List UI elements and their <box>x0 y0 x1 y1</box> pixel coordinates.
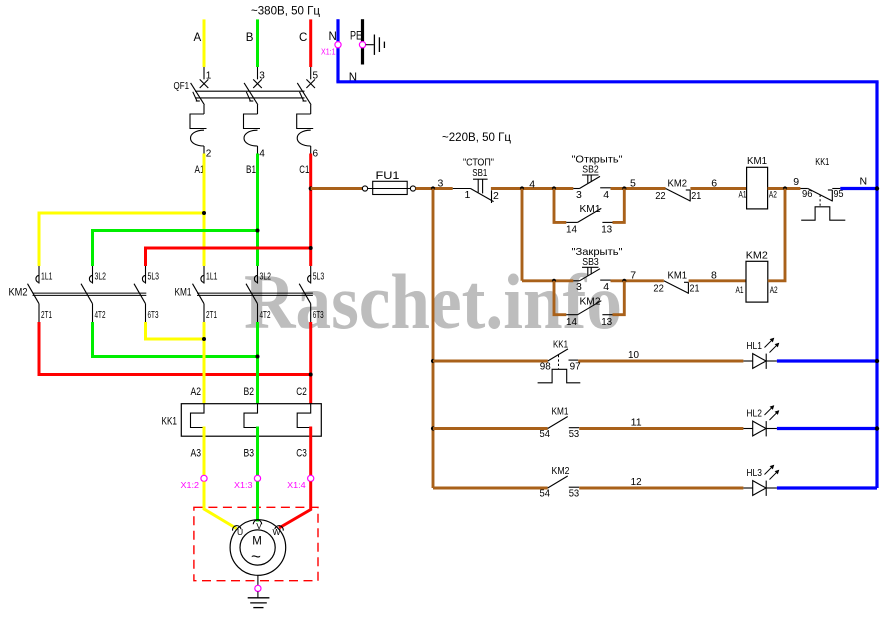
node junction N bus lamp2 <box>875 426 879 430</box>
wire brown SB1 to SB2 <box>491 187 573 190</box>
node junction A-branch <box>202 211 206 215</box>
svg-text:4: 4 <box>529 179 535 191</box>
wire brown KM2 coil A2 up to node 9 <box>768 189 785 281</box>
wire blue to N <box>840 187 877 190</box>
thermal relay KK1 heater element <box>244 404 258 428</box>
svg-text:10: 10 <box>628 349 639 361</box>
wire green to motor V <box>256 482 259 522</box>
svg-text:54: 54 <box>540 487 551 499</box>
svg-text:1L1: 1L1 <box>41 271 53 282</box>
svg-text:1: 1 <box>206 71 212 82</box>
svg-text:6T3: 6T3 <box>148 310 159 321</box>
wire N horizontal to right <box>336 80 878 83</box>
svg-text:A3: A3 <box>191 448 202 460</box>
circuit breaker QF1 pole 1 <box>203 67 205 79</box>
wire brown SB3 to KM1 NC <box>611 279 664 282</box>
motor M circles <box>230 520 286 576</box>
svg-text:B2: B2 <box>244 386 255 398</box>
svg-text:~380В, 50 Гц: ~380В, 50 Гц <box>251 6 320 18</box>
contactor main contact pole 1L1/2T1 <box>38 266 40 284</box>
lamp HL1 (LED) <box>743 360 752 362</box>
motor ground lead <box>257 575 259 585</box>
node tap on C1 <box>309 186 313 190</box>
lamp HL1 emission arrows <box>765 338 774 347</box>
mechanism dashed link KK1 <box>819 195 821 207</box>
svg-text:5: 5 <box>630 177 636 189</box>
contactor main contact pole 1L1/2T1 <box>203 266 205 284</box>
svg-text:KK1: KK1 <box>162 415 178 427</box>
wire brown FU1 to SB1 <box>416 187 453 190</box>
wire phase C (red) top <box>309 19 312 67</box>
wire N below terminal X1:1 <box>336 48 339 82</box>
wire green branch B to KM2 3L2 <box>93 231 258 267</box>
svg-text:B1: B1 <box>246 164 256 176</box>
circuit breaker QF1 pole 3 <box>310 67 312 79</box>
svg-text:22: 22 <box>653 282 664 294</box>
svg-text:54: 54 <box>540 428 551 440</box>
svg-text:KM1: KM1 <box>747 155 767 167</box>
svg-text:M: M <box>252 536 262 548</box>
svg-text:B: B <box>246 32 254 44</box>
terminal circle motor ground <box>255 585 261 591</box>
node junction on N bus <box>875 186 879 190</box>
wire brown close branch left <box>522 279 573 282</box>
svg-text:6: 6 <box>313 148 319 159</box>
terminal X1:2 circle <box>201 475 207 481</box>
terminal X1:4 circle <box>308 475 314 481</box>
wire C2 (red) down to KK1 <box>309 322 312 404</box>
wire yellow branch A to KM2 1L1 <box>39 213 204 266</box>
wire B2 (green) down to KK1 <box>256 322 259 404</box>
lamp HL2 (LED) <box>743 428 752 430</box>
terminal circle on PE <box>359 42 365 48</box>
svg-text:C3: C3 <box>296 448 307 460</box>
thermal relay KK1 heater element <box>191 404 205 428</box>
svg-text:4: 4 <box>603 189 609 201</box>
svg-text:C2: C2 <box>296 386 307 398</box>
svg-text:A2: A2 <box>769 190 777 201</box>
wire brown lamp feeder vertical <box>432 189 435 489</box>
svg-text:A1: A1 <box>739 190 747 201</box>
svg-text:A1: A1 <box>736 285 744 296</box>
svg-text:7: 7 <box>630 270 636 282</box>
svg-text:22: 22 <box>655 190 666 202</box>
terminal X1:1 circle on N <box>335 42 341 48</box>
svg-text:14: 14 <box>566 316 577 328</box>
svg-text:9: 9 <box>793 176 799 188</box>
svg-text:KK1: KK1 <box>815 156 829 168</box>
svg-text:11: 11 <box>631 417 642 429</box>
svg-text:1L1: 1L1 <box>206 271 218 282</box>
wire N (blue) vertical top <box>336 19 339 41</box>
wire phase A (yellow) top <box>203 19 206 67</box>
wire <box>832 188 840 190</box>
contactor main contact pole 5L3/6T3 <box>145 266 147 284</box>
node 5 junction <box>622 186 626 190</box>
wire latch loop KM2 aux <box>554 281 566 315</box>
wire N right-side vertical (blue) <box>875 82 878 488</box>
svg-text:14: 14 <box>566 224 577 236</box>
wire brown C1 to FU1 <box>311 187 363 190</box>
svg-text:5L3: 5L3 <box>313 271 325 282</box>
node junction B2 <box>256 355 260 359</box>
wire to motor terminal block <box>203 427 206 476</box>
svg-text:21: 21 <box>690 282 700 294</box>
wire brown to KM2 coil <box>689 279 746 282</box>
svg-text:KM2: KM2 <box>552 465 570 477</box>
lamp HL3 (LED) <box>743 487 752 489</box>
svg-text:SB2: SB2 <box>582 164 599 176</box>
motor enclosure dashed box <box>194 507 318 580</box>
motor terminal arcs U V W <box>233 526 241 531</box>
node junction B-branch <box>256 229 260 233</box>
terminal X1:3 circle <box>254 475 260 481</box>
wire A1 (yellow) down to KM1 <box>203 154 206 267</box>
wire phase B (green) top <box>256 19 259 67</box>
svg-text:3: 3 <box>438 178 444 190</box>
wire brown to KM1 coil <box>690 187 746 190</box>
lamp HL2 emission arrows <box>765 406 774 415</box>
thermal release symbol KK1 <box>801 207 845 220</box>
svg-text:C: C <box>299 32 307 44</box>
svg-text:6: 6 <box>711 177 717 189</box>
wire brown lamp1 right <box>578 360 743 363</box>
svg-text:96: 96 <box>802 188 813 200</box>
wire to motor terminal block <box>256 427 259 476</box>
contactor KM1 linkage double bar <box>197 292 313 294</box>
svg-text:4T2: 4T2 <box>95 310 106 321</box>
node 9 junction <box>783 186 787 190</box>
node 3 junction <box>431 186 435 190</box>
svg-text:~: ~ <box>251 547 261 566</box>
wire latch loop return <box>613 189 625 223</box>
svg-text:21: 21 <box>691 190 701 202</box>
svg-text:W: W <box>273 527 281 537</box>
svg-text:SB1: SB1 <box>472 167 487 179</box>
svg-text:KM2: KM2 <box>668 177 688 189</box>
contactor main contact pole 5L3/6T3 <box>310 266 312 284</box>
svg-text:53: 53 <box>569 487 580 499</box>
thermal relay KK1 heater element <box>297 404 311 428</box>
svg-text:HL2: HL2 <box>746 408 762 420</box>
svg-text:V: V <box>256 521 262 531</box>
circuit breaker QF1 linkage bars <box>195 90 305 92</box>
wire yellow KM2 6T3 to A2 <box>146 322 205 339</box>
svg-text:4T2: 4T2 <box>260 310 271 321</box>
node junction lamp1 <box>431 359 435 363</box>
svg-text:13: 13 <box>601 224 612 236</box>
wire brown drop node4 to close branch <box>521 189 524 281</box>
wire C1 (red) down to KM1 <box>309 154 312 267</box>
node junction N bus lamp1 <box>875 359 879 363</box>
node junction lamp2 <box>431 426 435 430</box>
node latch-2 junction <box>552 279 556 283</box>
lamp HL3 emission arrows <box>765 465 774 474</box>
wire A2 (yellow) down to KK1 <box>203 322 206 404</box>
svg-text:6T3: 6T3 <box>313 310 324 321</box>
wire green KM2 4T2 to B2 <box>93 322 258 357</box>
svg-text:C1: C1 <box>299 164 309 176</box>
wire brown lamp1 left <box>433 360 548 363</box>
wire red to motor W <box>279 482 311 529</box>
wire red branch C to KM2 5L3 <box>146 248 311 266</box>
svg-text:N: N <box>329 31 337 43</box>
svg-text:KM1: KM1 <box>580 203 601 215</box>
svg-text:KM1: KM1 <box>175 287 192 299</box>
svg-text:B3: B3 <box>244 448 255 460</box>
svg-text:KM1: KM1 <box>668 270 688 282</box>
wire brown lamp2 left <box>433 427 548 430</box>
svg-text:A: A <box>194 32 202 44</box>
svg-text:KM2: KM2 <box>9 287 28 299</box>
wire red KM2 2T1 to C2 <box>39 322 311 375</box>
svg-text:A2: A2 <box>770 285 778 296</box>
svg-text:2T1: 2T1 <box>206 310 217 321</box>
svg-text:U: U <box>237 527 243 537</box>
contactor KM2 linkage double bar <box>33 292 147 294</box>
svg-text:HL3: HL3 <box>746 467 762 479</box>
svg-text:8: 8 <box>711 270 717 282</box>
node 4 junction <box>520 186 524 190</box>
svg-text:PE: PE <box>350 31 362 43</box>
wire B1 (green) down to KM1 <box>256 154 259 267</box>
svg-text:12: 12 <box>631 476 642 488</box>
contactor main contact pole 3L2/4T2 <box>92 266 94 284</box>
svg-text:98: 98 <box>540 360 551 372</box>
node junction C2 <box>309 373 313 377</box>
svg-text:~220В, 50 Гц: ~220В, 50 Гц <box>442 132 511 144</box>
svg-text:X1:1: X1:1 <box>321 48 336 57</box>
wire PE lower <box>361 48 364 65</box>
svg-text:KK1: KK1 <box>553 339 568 351</box>
wire yellow to motor U <box>204 482 237 529</box>
svg-text:3L2: 3L2 <box>95 271 107 282</box>
wire PE upper <box>361 19 364 41</box>
svg-text:X1:2: X1:2 <box>181 481 200 490</box>
svg-text:HL1: HL1 <box>746 340 762 352</box>
wire brown lamp3 right <box>579 487 743 490</box>
svg-text:4: 4 <box>603 281 609 293</box>
svg-text:2T1: 2T1 <box>41 310 52 321</box>
wire blue HL2 to N <box>777 427 877 430</box>
wire brown lamp2 right <box>579 427 743 430</box>
svg-text:2: 2 <box>493 190 499 202</box>
svg-text:QF1: QF1 <box>174 80 190 92</box>
svg-text:KM2: KM2 <box>746 249 768 261</box>
thermal relay KK1 box <box>181 404 321 437</box>
svg-text:N: N <box>860 176 868 188</box>
circuit breaker QF1 pole 2 <box>257 67 259 79</box>
svg-text:A2: A2 <box>191 386 202 398</box>
svg-text:13: 13 <box>601 316 612 328</box>
contactor main contact pole 3L2/4T2 <box>257 266 259 284</box>
wire brown lamp3 left <box>433 487 548 490</box>
svg-text:3: 3 <box>259 71 265 82</box>
ground symbol under motor <box>248 597 270 599</box>
svg-text:2: 2 <box>206 148 212 159</box>
svg-text:3: 3 <box>576 189 582 201</box>
node junction A2 <box>202 337 206 341</box>
svg-text:5: 5 <box>313 71 319 82</box>
svg-text:1: 1 <box>465 189 471 201</box>
svg-text:KM2: KM2 <box>580 296 601 308</box>
mechanism dashed link <box>558 355 560 369</box>
svg-text:53: 53 <box>569 428 580 440</box>
svg-text:KM1: KM1 <box>552 406 569 418</box>
svg-text:3: 3 <box>576 281 582 293</box>
wire to motor terminal block <box>309 427 312 476</box>
svg-text:FU1: FU1 <box>376 170 400 182</box>
svg-text:5L3: 5L3 <box>148 271 160 282</box>
wire brown SB2 to KM2 NC <box>611 187 666 190</box>
svg-text:4: 4 <box>259 148 265 159</box>
wire blue HL3 to N <box>777 486 877 489</box>
wire to ground <box>257 592 259 598</box>
svg-text:3L2: 3L2 <box>260 271 272 282</box>
node 7 junction <box>622 279 626 283</box>
svg-text:SB3: SB3 <box>582 256 599 268</box>
svg-text:X1:4: X1:4 <box>287 481 306 490</box>
thermal release symbol KK1 lamp branch <box>538 369 581 383</box>
wire latch loop KM1 aux <box>554 189 566 223</box>
wire blue HL1 to N <box>777 359 877 362</box>
svg-text:X1:3: X1:3 <box>234 481 253 490</box>
ground symbol PE (earth) <box>366 44 374 46</box>
node latch-1 junction <box>552 186 556 190</box>
wire latch loop 2 return <box>613 281 625 315</box>
node junction C-branch <box>309 246 313 250</box>
wire brown KM1 coil to KK1 contact <box>768 187 801 190</box>
